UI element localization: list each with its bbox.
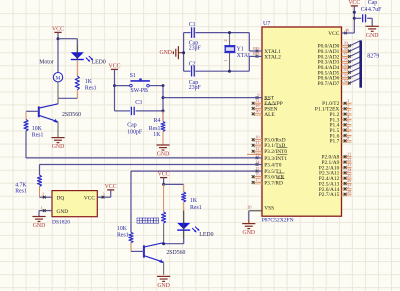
svg-text:S1: S1 [130, 73, 136, 79]
svg-text:VCC: VCC [328, 31, 339, 37]
svg-text:40: 40 [345, 28, 349, 33]
svg-text:6: 6 [347, 125, 349, 130]
svg-text:VCC: VCC [109, 63, 121, 69]
svg-text:11: 11 [255, 140, 259, 145]
svg-text:M: M [56, 76, 61, 82]
svg-text:3: 3 [347, 109, 349, 114]
svg-text:GND: GND [243, 230, 256, 236]
svg-text:4.7uF: 4.7uF [368, 7, 382, 13]
svg-text:P3.7/RD: P3.7/RD [264, 180, 283, 186]
svg-text:18: 18 [252, 51, 256, 56]
svg-text:1: 1 [347, 98, 349, 103]
svg-text:4.7K: 4.7K [15, 182, 27, 188]
svg-text:C2: C2 [189, 62, 196, 68]
svg-text:36: 36 [344, 56, 348, 61]
svg-text:Cap: Cap [127, 122, 136, 128]
svg-text:C1: C1 [189, 22, 196, 28]
svg-text:37: 37 [344, 51, 348, 56]
svg-text:P0.7/AD7: P0.7/AD7 [318, 81, 340, 87]
svg-text:23: 23 [347, 162, 351, 167]
svg-text:Res1: Res1 [149, 126, 161, 132]
svg-text:7: 7 [347, 130, 349, 135]
svg-text:38: 38 [344, 46, 348, 51]
svg-text:VCC: VCC [52, 26, 64, 32]
svg-text:GND: GND [159, 50, 172, 56]
svg-text:2: 2 [223, 39, 228, 41]
svg-text:2: 2 [347, 103, 349, 108]
svg-text:Res1: Res1 [190, 205, 202, 211]
svg-text:Res1: Res1 [85, 85, 97, 91]
svg-text:Cap: Cap [368, 0, 377, 6]
svg-text:GND: GND [366, 33, 379, 39]
svg-text:100pF: 100pF [127, 129, 143, 135]
svg-text:Motor: Motor [39, 60, 54, 66]
svg-text:10K: 10K [32, 126, 43, 132]
svg-text:GND: GND [57, 209, 69, 215]
svg-text:8279: 8279 [367, 54, 379, 60]
svg-text:GND: GND [52, 144, 65, 150]
svg-text:10: 10 [255, 134, 259, 139]
svg-text:28: 28 [347, 189, 351, 194]
svg-text:VSS: VSS [264, 205, 274, 211]
svg-text:27: 27 [347, 184, 351, 189]
svg-text:Res1: Res1 [32, 132, 44, 138]
svg-text:19: 19 [252, 46, 256, 51]
svg-text:2SD560: 2SD560 [62, 112, 81, 118]
svg-text:C3: C3 [135, 100, 142, 106]
svg-text:ALE: ALE [264, 112, 275, 118]
svg-text:VCC: VCC [84, 195, 95, 201]
svg-text:3: 3 [103, 192, 105, 197]
svg-text:2: 2 [42, 191, 44, 196]
svg-text:23pF: 23pF [189, 45, 202, 51]
svg-text:R4: R4 [154, 118, 161, 124]
svg-text:SW-PB: SW-PB [131, 88, 149, 94]
svg-text:P3.4/T0: P3.4/T0 [264, 163, 282, 169]
svg-text:5: 5 [347, 119, 349, 124]
svg-text:Res1: Res1 [117, 232, 129, 238]
svg-text:10K: 10K [117, 226, 128, 232]
svg-text:VCC: VCC [348, 0, 360, 6]
svg-text:1K: 1K [153, 132, 161, 138]
svg-text:1: 1 [223, 60, 228, 62]
svg-text:P87C52X2FN: P87C52X2FN [262, 217, 294, 223]
svg-text:22: 22 [347, 157, 351, 162]
svg-text:LED0: LED0 [199, 232, 213, 238]
svg-text:33: 33 [344, 72, 348, 77]
svg-text:DS1820: DS1820 [52, 219, 70, 225]
svg-text:16: 16 [255, 171, 259, 176]
svg-text:LED0: LED0 [92, 59, 106, 65]
svg-text:XTAL2: XTAL2 [264, 54, 281, 60]
svg-text:20: 20 [247, 204, 251, 209]
svg-text:8: 8 [347, 136, 349, 141]
svg-text:Res1: Res1 [15, 189, 27, 195]
svg-text:25: 25 [347, 173, 351, 178]
svg-text:39: 39 [344, 41, 348, 46]
svg-text:VCC: VCC [158, 172, 170, 178]
svg-text:P2.7/A15: P2.7/A15 [319, 192, 340, 198]
svg-text:12: 12 [255, 146, 259, 151]
svg-text:2SD560: 2SD560 [166, 250, 185, 256]
svg-text:26: 26 [347, 178, 351, 183]
svg-text:21: 21 [347, 151, 351, 156]
svg-text:GND: GND [157, 152, 170, 158]
svg-text:1K: 1K [190, 198, 198, 204]
svg-text:GND: GND [33, 223, 46, 229]
svg-text:P1.7: P1.7 [330, 139, 340, 145]
svg-text:17: 17 [255, 177, 259, 182]
svg-text:DQ: DQ [57, 195, 65, 201]
svg-text:32: 32 [344, 78, 348, 83]
svg-text:GND: GND [157, 283, 170, 289]
svg-text:VCC: VCC [105, 184, 117, 190]
svg-text:23pF: 23pF [189, 85, 202, 91]
svg-text:35: 35 [344, 62, 348, 67]
svg-text:1: 1 [41, 205, 43, 210]
svg-text:29: 29 [255, 103, 259, 108]
svg-text:C4: C4 [361, 7, 368, 13]
svg-text:P3.3/INT1: P3.3/INT1 [264, 156, 287, 162]
svg-text:Y1: Y1 [237, 46, 244, 52]
svg-text:1K: 1K [85, 79, 93, 85]
svg-text:30: 30 [255, 109, 259, 114]
svg-text:U7: U7 [263, 21, 270, 27]
